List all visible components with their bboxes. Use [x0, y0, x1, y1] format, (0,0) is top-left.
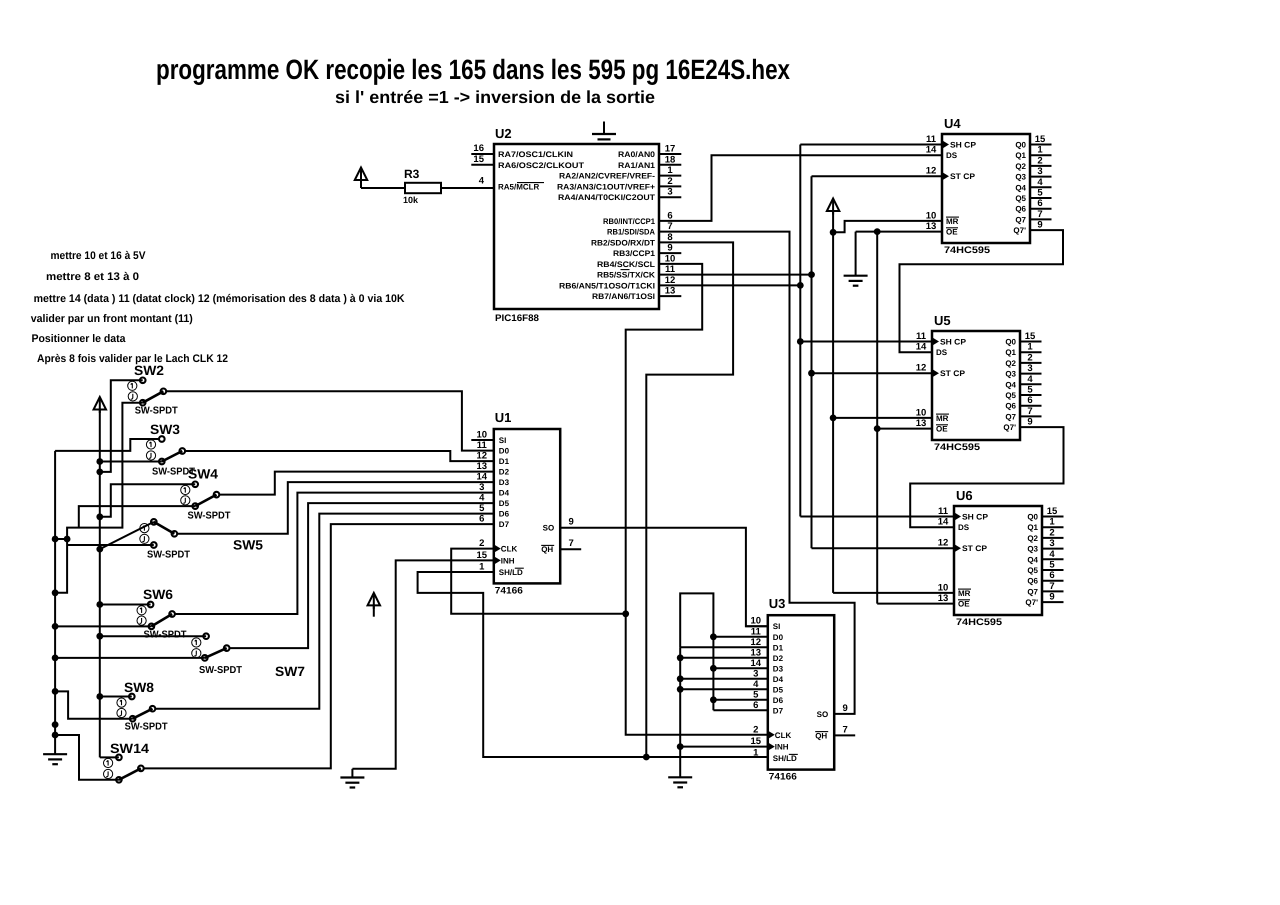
svg-text:7: 7 — [667, 221, 672, 232]
svg-text:6: 6 — [1049, 570, 1054, 581]
svg-text:D0: D0 — [773, 633, 784, 642]
svg-text:1: 1 — [1049, 517, 1055, 528]
wire SW3 bottom to +V — [100, 461, 162, 463]
svg-text:RA5/MCLR: RA5/MCLR — [498, 182, 540, 191]
wire SW3 to U1 D1 pin12 — [182, 451, 494, 461]
svg-text:3: 3 — [1049, 538, 1054, 549]
wire loop B vertical — [712, 637, 714, 711]
svg-text:15: 15 — [477, 550, 488, 561]
svg-text:4: 4 — [1027, 374, 1033, 385]
svg-text:D1: D1 — [499, 457, 510, 466]
svg-text:10: 10 — [916, 407, 927, 418]
svg-text:SW4: SW4 — [188, 467, 218, 482]
svg-text:SH/LD: SH/LD — [773, 754, 797, 763]
svg-text:QH: QH — [541, 545, 553, 554]
wire U3 D1 from bus A — [680, 646, 768, 648]
node SW8 top on +V bus — [96, 693, 103, 700]
svg-text:4: 4 — [479, 176, 485, 187]
svg-text:DS: DS — [958, 523, 970, 532]
U1 pin 10 SI stub — [471, 439, 494, 441]
svg-text:Q7: Q7 — [1027, 587, 1038, 596]
svg-text:SW14: SW14 — [110, 741, 150, 756]
svg-text:Q1: Q1 — [1005, 348, 1016, 357]
svg-text:11: 11 — [938, 506, 949, 517]
svg-text:DS: DS — [936, 348, 948, 357]
svg-text:7: 7 — [1027, 406, 1032, 417]
IC U1 74166 body — [494, 429, 560, 583]
wire SW6 bottom to ground bus — [56, 625, 151, 627]
wire RB6 pin12 to SH CP bus — [659, 284, 800, 286]
wire SW5 to U1 D3 pin14 — [174, 482, 493, 534]
wire SW14 top to +V bus end — [100, 756, 119, 758]
svg-text:13: 13 — [926, 221, 937, 232]
svg-text:7: 7 — [843, 724, 848, 735]
wire U5 OE pin13 — [877, 428, 932, 430]
svg-text:D4: D4 — [499, 489, 510, 498]
svg-text:12: 12 — [916, 363, 927, 374]
node U3 INH on bus A — [677, 743, 684, 750]
svg-text:RB7/AN6/T1OSI: RB7/AN6/T1OSI — [592, 292, 655, 301]
svg-text:D6: D6 — [499, 510, 510, 519]
svg-text:D2: D2 — [499, 468, 510, 477]
svg-text:14: 14 — [926, 145, 937, 156]
svg-text:programme OK recopie les 165 d: programme OK recopie les 165 dans les 59… — [156, 54, 790, 85]
svg-text:Q3: Q3 — [1005, 370, 1016, 379]
svg-text:10: 10 — [477, 430, 488, 441]
IC U3 74166 body — [768, 615, 834, 769]
svg-text:12: 12 — [751, 637, 762, 648]
svg-text:SO: SO — [543, 524, 555, 533]
svg-text:Q5: Q5 — [1027, 566, 1038, 575]
wire SW8 top to +V — [100, 696, 132, 698]
wire SW7 top to +V — [100, 635, 206, 637]
svg-text:4: 4 — [753, 679, 759, 690]
node SH/LD net junction — [643, 754, 650, 761]
svg-text:15: 15 — [1025, 331, 1036, 342]
svg-text:Q0: Q0 — [1027, 513, 1038, 522]
wire SW14 bottom to ground bus — [56, 735, 119, 780]
svg-text:SW3: SW3 — [150, 422, 180, 437]
node SH bus to U5 — [797, 338, 804, 345]
wire U3 SO pin9 to RB1 SDI pin7 — [659, 232, 855, 714]
svg-text:9: 9 — [667, 243, 672, 254]
svg-text:Q6: Q6 — [1027, 577, 1038, 586]
svg-text:SH CP: SH CP — [962, 513, 989, 522]
svg-text:10: 10 — [938, 582, 949, 593]
svg-text:RB6/AN5/T1OSO/T1CKI: RB6/AN5/T1OSO/T1CKI — [559, 281, 655, 290]
svg-text:Q2: Q2 — [1015, 162, 1026, 171]
node SW6 bottom on ground bus — [52, 623, 59, 630]
svg-text:D1: D1 — [773, 643, 784, 652]
svg-text:7: 7 — [1037, 209, 1042, 220]
svg-text:11: 11 — [916, 331, 927, 342]
svg-text:9: 9 — [843, 703, 848, 714]
svg-text:Q5: Q5 — [1005, 391, 1016, 400]
svg-text:8: 8 — [667, 232, 672, 243]
svg-text:11: 11 — [926, 134, 937, 145]
IC U6 74HC595 body — [954, 506, 1042, 615]
svg-text:ST CP: ST CP — [962, 544, 988, 553]
switch SW4 — [192, 482, 198, 488]
wire SH bus to U6 SH CP pin11 — [800, 516, 954, 518]
svg-text:3: 3 — [667, 187, 672, 198]
svg-text:4: 4 — [1049, 549, 1055, 560]
wire RB4 SCK pin10 to CLK net — [626, 264, 768, 735]
svg-text:11: 11 — [751, 626, 762, 637]
power +V arrow near U4 — [827, 199, 840, 212]
svg-text:RA3/AN3/C1OUT/VREF+: RA3/AN3/C1OUT/VREF+ — [557, 182, 655, 191]
svg-text:2: 2 — [479, 538, 484, 549]
svg-text:D5: D5 — [499, 499, 510, 508]
svg-text:9: 9 — [1027, 417, 1032, 428]
svg-text:Q4: Q4 — [1005, 380, 1016, 389]
svg-text:PIC16F88: PIC16F88 — [495, 313, 539, 324]
svg-text:5: 5 — [1027, 385, 1033, 396]
node ST bus to U5 — [808, 370, 815, 377]
svg-text:RB1/SDI/SDA: RB1/SDI/SDA — [607, 228, 655, 237]
svg-text:Q7: Q7 — [1015, 215, 1026, 224]
node SW2 top on +V bus — [96, 469, 103, 476]
svg-text:Q0: Q0 — [1005, 338, 1016, 347]
wire U1 INH pin15 to ground — [352, 560, 493, 768]
svg-text:CLK: CLK — [501, 545, 518, 554]
svg-text:Q1: Q1 — [1015, 151, 1026, 160]
svg-text:D2: D2 — [773, 654, 784, 663]
wire +V bus vertical left — [99, 409, 101, 757]
svg-text:13: 13 — [665, 286, 676, 297]
svg-text:Q0: Q0 — [1015, 141, 1026, 150]
switch SW3 — [159, 436, 165, 442]
node extra on ground bus — [52, 721, 59, 728]
svg-text:9: 9 — [1037, 220, 1042, 231]
svg-text:2: 2 — [753, 724, 758, 735]
svg-text:74HC595: 74HC595 — [934, 442, 981, 453]
svg-text:SW-SPDT: SW-SPDT — [147, 550, 190, 561]
svg-text:RB0/INT/CCP1: RB0/INT/CCP1 — [603, 217, 656, 226]
svg-text:mettre 10 et 16 à 5V: mettre 10 et 16 à 5V — [51, 250, 147, 262]
svg-text:RB4/SCK/SCL: RB4/SCK/SCL — [597, 260, 655, 269]
svg-text:OE: OE — [958, 600, 970, 609]
svg-text:RA6/OSC2/CLKOUT: RA6/OSC2/CLKOUT — [498, 161, 584, 170]
wire ST bus to U5 ST CP pin12 — [812, 372, 933, 374]
U4 pin 12 ST CP — [942, 172, 949, 180]
svg-text:U6: U6 — [956, 488, 973, 503]
svg-text:SW-SPDT: SW-SPDT — [199, 665, 242, 676]
svg-text:2: 2 — [1037, 155, 1042, 166]
svg-text:6: 6 — [753, 700, 758, 711]
wire +V bus vertical right — [832, 211, 834, 593]
svg-text:74166: 74166 — [769, 772, 797, 783]
svg-text:15: 15 — [1047, 506, 1058, 517]
wire SW8 bottom to ground bus — [56, 691, 133, 718]
ground below U3 — [668, 776, 692, 778]
svg-text:6: 6 — [1037, 198, 1042, 209]
wire ST bus to U6 ST CP pin12 — [812, 547, 955, 549]
svg-text:RA1/AN1: RA1/AN1 — [618, 161, 656, 170]
svg-text:14: 14 — [938, 517, 949, 528]
U4 pin 11 SH CP — [942, 140, 949, 148]
wire ST CP bus vertical — [811, 176, 813, 548]
svg-text:SW8: SW8 — [124, 680, 154, 695]
svg-text:Positionner le data: Positionner le data — [32, 333, 127, 345]
svg-text:DS: DS — [946, 151, 958, 160]
svg-text:10k: 10k — [403, 195, 419, 205]
svg-text:12: 12 — [665, 275, 676, 286]
U2 pin 13 RB7 stub — [659, 295, 681, 297]
svg-text:Q7': Q7' — [1025, 598, 1038, 607]
svg-text:5: 5 — [1049, 560, 1055, 571]
ground at U1 INH net — [351, 769, 353, 778]
node tie on ground bus — [52, 536, 59, 543]
svg-text:Q7': Q7' — [1013, 226, 1026, 235]
wire ground bus top to SW3 top — [55, 439, 162, 451]
wire SW14 to U1 D7 pin6 — [141, 524, 494, 768]
svg-text:12: 12 — [938, 538, 949, 549]
node U3 D4 on bus A — [677, 675, 684, 682]
svg-text:D3: D3 — [499, 478, 510, 487]
svg-text:SH CP: SH CP — [950, 141, 977, 150]
node SW7 top on +V bus — [96, 633, 103, 640]
U6 pin 12 ST CP — [954, 544, 961, 552]
svg-text:INH: INH — [775, 743, 789, 752]
node SW7 bottom on ground bus — [52, 655, 59, 662]
wire RB0 pin6 to U4 DS pin14 — [659, 155, 942, 221]
wire SW7 to U1 D5 pin4 — [227, 503, 494, 648]
svg-text:Q6: Q6 — [1015, 205, 1026, 214]
svg-text:9: 9 — [1049, 592, 1054, 603]
svg-text:12: 12 — [926, 166, 937, 177]
svg-text:D7: D7 — [773, 706, 784, 715]
node SW2 bottom on ground bus — [52, 589, 59, 596]
svg-text:RB5/SS/TX/CK: RB5/SS/TX/CK — [597, 271, 655, 280]
wire U6 OE pin13 — [877, 603, 954, 605]
wire U1 CLK pin2 branch — [451, 549, 626, 614]
U1 pin 2 CLK — [494, 544, 501, 552]
wire U1 SO pin9 to U3 SI pin10 — [560, 528, 768, 627]
svg-text:6: 6 — [479, 514, 484, 525]
wire U5 MR pin10 to +V — [833, 417, 932, 419]
node SW4 top on +V bus — [96, 513, 103, 520]
svg-text:9: 9 — [569, 517, 574, 528]
ground at U4 OE — [855, 232, 857, 276]
wire SW4 to U1 D2 pin13 — [217, 472, 494, 495]
wire SW4 top to +V — [100, 484, 195, 517]
node U3 D0 on loop B — [710, 633, 717, 640]
svg-text:MR: MR — [958, 589, 971, 598]
svg-text:13: 13 — [751, 647, 762, 658]
svg-text:SW2: SW2 — [134, 363, 164, 378]
svg-text:U1: U1 — [495, 410, 512, 425]
wire SW5 top to +V diagonal — [100, 522, 154, 549]
wire OE bus vertical — [876, 232, 878, 604]
svg-text:14: 14 — [751, 658, 762, 669]
svg-text:3: 3 — [1037, 166, 1042, 177]
node +V to U5 MR — [830, 415, 837, 422]
U2 right RA pin stubs 17 18 1 2 3 — [659, 153, 681, 155]
U5 pin 12 ST CP — [932, 369, 939, 377]
svg-text:4: 4 — [479, 493, 485, 504]
svg-text:10: 10 — [926, 210, 937, 221]
svg-text:10: 10 — [665, 253, 676, 264]
wire +V arrow to R3 — [360, 180, 362, 188]
svg-text:SH/LD: SH/LD — [499, 568, 523, 577]
svg-text:17: 17 — [665, 144, 676, 155]
svg-text:1: 1 — [1037, 145, 1043, 156]
svg-text:RA0/AN0: RA0/AN0 — [618, 150, 656, 159]
svg-text:mettre 8 et 13 à 0: mettre 8 et 13 à 0 — [46, 271, 139, 283]
U1 pin 15 INH — [494, 556, 501, 564]
wire U1 SH/LD pin1 to U3 SH/LD pin1 — [418, 572, 768, 757]
node SW3 bottom on +V bus — [96, 458, 103, 465]
svg-text:D0: D0 — [499, 447, 510, 456]
svg-text:15: 15 — [473, 154, 484, 165]
svg-text:Q1: Q1 — [1027, 523, 1038, 532]
svg-text:SW-SPDT: SW-SPDT — [125, 722, 168, 733]
switch SW2 — [140, 378, 146, 384]
svg-text:valider par un front montant (: valider par un front montant (11) — [31, 313, 193, 325]
svg-text:OE: OE — [946, 228, 958, 237]
svg-text:SI: SI — [773, 622, 781, 631]
svg-text:14: 14 — [477, 472, 488, 483]
node U3 D2 on bus A — [677, 654, 684, 661]
wire U4 OE pin13 to ground and OE bus — [877, 231, 942, 233]
wire SW2 top to +V — [100, 380, 143, 472]
svg-text:OE: OE — [936, 425, 948, 434]
node CLK net junction — [622, 610, 629, 617]
wire SW4 bottom to ground route — [79, 506, 195, 527]
svg-text:13: 13 — [916, 418, 927, 429]
node SW6 top on +V bus — [96, 601, 103, 608]
wire SH bus to U4 SH CP pin11 — [800, 144, 942, 146]
wire U3 ground bus vertical A — [679, 648, 681, 777]
svg-text:10: 10 — [751, 616, 762, 627]
svg-text:ST CP: ST CP — [940, 369, 966, 378]
svg-text:ST CP: ST CP — [950, 172, 976, 181]
svg-text:18: 18 — [665, 154, 676, 165]
svg-text:2: 2 — [1027, 352, 1032, 363]
U2 pin 9 RB3 stub — [659, 252, 681, 254]
svg-text:4: 4 — [1037, 177, 1043, 188]
wire U4 Q7' pin9 to U5 DS pin14 — [900, 230, 1064, 352]
ground above U2 — [603, 122, 605, 135]
svg-text:U3: U3 — [769, 596, 786, 611]
wire SH bus to U5 SH CP pin11 — [800, 341, 932, 343]
svg-text:RB2/SDO/RX/DT: RB2/SDO/RX/DT — [591, 238, 655, 247]
U6 pin 11 SH CP — [954, 512, 961, 520]
wire SW6 to U1 D4 pin3 — [172, 493, 494, 614]
svg-text:Q3: Q3 — [1015, 173, 1026, 182]
svg-text:15: 15 — [1035, 134, 1046, 145]
svg-text:5: 5 — [479, 503, 485, 514]
node SW8 bottom on ground bus — [52, 688, 59, 695]
wire U3 data ground loop top — [680, 593, 713, 648]
svg-text:2: 2 — [667, 176, 672, 187]
node SW5 top on +V bus — [96, 546, 103, 553]
svg-text:2: 2 — [1049, 527, 1054, 538]
svg-text:D4: D4 — [773, 675, 784, 684]
wire RB2 SDO pin8 to SH/LD net — [646, 242, 733, 757]
svg-text:Q4: Q4 — [1015, 183, 1026, 192]
svg-text:RA2/AN2/CVREF/VREF-: RA2/AN2/CVREF/VREF- — [559, 172, 655, 181]
svg-text:Q2: Q2 — [1005, 359, 1016, 368]
power +V arrow left bus — [94, 397, 107, 410]
IC U5 74HC595 body — [932, 331, 1020, 440]
wire U3 D7 from loop B — [713, 709, 767, 711]
svg-text:D7: D7 — [499, 520, 510, 529]
IC U2 PIC16F88 body — [494, 144, 659, 309]
switch SW8 — [129, 694, 135, 700]
svg-text:16: 16 — [473, 143, 484, 154]
node OE bus to U5 — [874, 425, 881, 432]
svg-text:74HC595: 74HC595 — [944, 245, 991, 256]
svg-text:MR: MR — [946, 217, 959, 226]
node U3 D5 on bus A — [677, 686, 684, 693]
svg-text:Q2: Q2 — [1027, 534, 1038, 543]
wire SW2 bottom to ground — [56, 403, 143, 593]
wire SW6 top to +V — [100, 604, 151, 606]
IC U4 74HC595 body — [942, 134, 1030, 243]
svg-text:R3: R3 — [404, 167, 420, 181]
svg-text:11: 11 — [477, 440, 488, 451]
wire SW2 to U1 D0 pin11 — [163, 391, 493, 450]
svg-text:Q7: Q7 — [1005, 412, 1016, 421]
svg-text:3: 3 — [753, 668, 758, 679]
node OE bus top — [874, 228, 881, 235]
wire R3 to U2 pin 4 RA5/MCLR — [441, 187, 494, 189]
node +V to U4 MR — [830, 229, 837, 236]
switch SW6 — [148, 602, 154, 608]
switch SW7 — [203, 633, 209, 639]
svg-text:SW-SPDT: SW-SPDT — [144, 630, 187, 641]
svg-text:7: 7 — [1049, 581, 1054, 592]
svg-text:U5: U5 — [934, 313, 951, 328]
svg-text:SW6: SW6 — [143, 587, 173, 602]
svg-text:Q5: Q5 — [1015, 194, 1026, 203]
svg-text:SW-SPDT: SW-SPDT — [135, 406, 178, 417]
node SW14 bottom on ground bus — [52, 732, 59, 739]
svg-text:RB3/CCP1: RB3/CCP1 — [613, 249, 656, 258]
svg-text:11: 11 — [665, 264, 676, 275]
svg-text:si l' entrée =1 -> inversion: si l' entrée =1 -> inversion de la sorti… — [335, 87, 655, 107]
svg-text:1: 1 — [667, 165, 673, 176]
svg-text:12: 12 — [477, 451, 488, 462]
svg-text:3: 3 — [479, 482, 484, 493]
U5 pin 11 SH CP — [932, 337, 939, 345]
svg-text:3: 3 — [1027, 363, 1032, 374]
svg-text:RA4/AN4/T0CKI/C2OUT: RA4/AN4/T0CKI/C2OUT — [558, 193, 655, 202]
svg-text:Q4: Q4 — [1027, 555, 1038, 564]
wire RB5 pin11 to ST CP bus — [659, 274, 812, 276]
wire U5 Q7' pin9 to U6 DS pin14 — [910, 427, 1063, 527]
svg-text:INH: INH — [501, 556, 515, 565]
node U3 D6 on loop B — [710, 696, 717, 703]
wire SW7 bottom to ground bus — [56, 657, 205, 659]
svg-text:MR: MR — [936, 414, 949, 423]
wire U6 MR pin10 to +V — [833, 592, 954, 594]
svg-text:D6: D6 — [773, 696, 784, 705]
svg-text:7: 7 — [569, 538, 574, 549]
svg-text:mettre 14 (data ) 11 (datat c: mettre 14 (data ) 11 (datat clock) 12 (m… — [34, 293, 405, 305]
U2 pin 16 RA7/OSC1/CLKIN stub — [471, 153, 494, 155]
power +V arrow at R3 — [355, 168, 368, 181]
wire SH CP bus vertical — [799, 145, 801, 517]
svg-text:15: 15 — [751, 736, 762, 747]
node U3 D3 on loop B — [710, 665, 717, 672]
svg-text:Q3: Q3 — [1027, 545, 1038, 554]
svg-text:QH: QH — [815, 731, 827, 740]
switch SW14 — [116, 755, 122, 761]
U3 pin 2 CLK — [768, 731, 775, 739]
